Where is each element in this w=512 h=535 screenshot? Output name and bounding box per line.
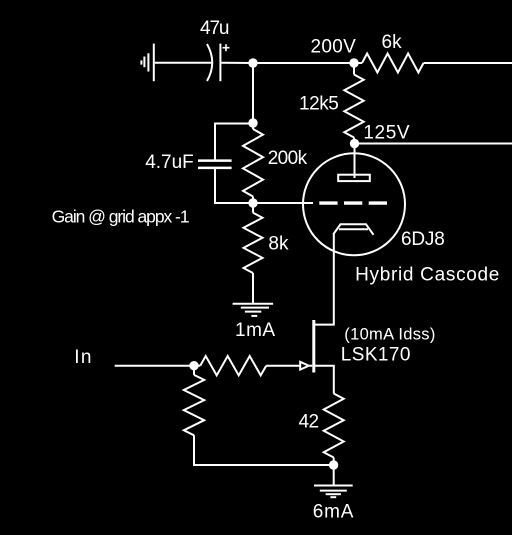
tube U1 envelope (303, 153, 405, 255)
wire node G to ground G3 (333, 465, 335, 485)
transistor Q1 LSK170 channel bar (312, 320, 315, 373)
wire R6 to bottom rail (194, 435, 334, 465)
svg-text:6mA: 6mA (313, 501, 354, 522)
wire gate arrow to bar (309, 365, 313, 367)
transistor Q1 gate arrow (300, 362, 309, 370)
svg-text:6DJ8: 6DJ8 (401, 229, 445, 250)
wire R2 to node C (353, 138, 356, 144)
resistor R3 200k (243, 129, 263, 197)
svg-text:12k5: 12k5 (299, 94, 338, 115)
svg-text:4.7uF: 4.7uF (145, 152, 194, 173)
wire R3 to node E (252, 197, 254, 204)
wire node B to R2 (353, 63, 355, 75)
wire R4 to ground G2 (252, 273, 254, 303)
wire cathode to Q1 drain (315, 233, 334, 325)
resistor R5 (gate stopper) (200, 356, 266, 375)
node G (329, 460, 338, 469)
ground G3 (6mA) (314, 486, 353, 498)
resistor R6 (gate return) (184, 375, 204, 435)
wire R7 to node G (333, 458, 335, 466)
resistor R1 6k (362, 54, 424, 73)
node E (248, 198, 257, 207)
svg-text:Gain @ grid appx -1: Gain @ grid appx -1 (52, 206, 189, 226)
svg-text:6k: 6k (382, 32, 403, 53)
wire 125V rail (355, 143, 512, 145)
svg-text:In: In (74, 347, 93, 368)
wire gate (266, 365, 300, 367)
tube U1 cathode (334, 224, 374, 235)
wire node F to R5 (194, 365, 200, 367)
wire node D to R3 (252, 123, 254, 129)
svg-text:8k: 8k (268, 233, 289, 254)
node F (189, 361, 198, 370)
wire cap branch top (215, 124, 253, 160)
resistor R7 42 (324, 394, 344, 458)
wire ground to C1 (155, 62, 212, 64)
svg-text:LSK170: LSK170 (341, 345, 411, 366)
tube U1 plate (338, 175, 370, 181)
wire node A to node B (200V rail) (253, 62, 354, 64)
svg-text:125V: 125V (363, 122, 410, 143)
transistor Q1 source lead (315, 366, 334, 394)
wire In to node F (115, 365, 194, 367)
svg-text:47u: 47u (200, 18, 229, 39)
wire C1 to node A (221, 62, 253, 64)
wire node A down to node D (252, 63, 254, 123)
capacitor C1 47u (207, 44, 230, 82)
node B (349, 58, 358, 67)
svg-text:1mA: 1mA (235, 320, 276, 341)
resistor R2 12k5 (344, 75, 363, 138)
capacitor C2 4.7uF (198, 161, 232, 168)
svg-text:42: 42 (299, 412, 319, 433)
node C (350, 139, 359, 148)
node A (248, 58, 257, 67)
tube U1 grid dashes (319, 201, 387, 204)
wire node E to grid (253, 202, 313, 204)
svg-text:200k: 200k (268, 148, 308, 169)
wire cap branch bottom (215, 169, 253, 203)
wire 6k to right edge (424, 62, 512, 64)
wire node C to plate (354, 144, 356, 179)
ground G1 (top-left, sideways) (141, 44, 153, 82)
svg-text:(10mA Idss): (10mA Idss) (344, 325, 435, 343)
node D (248, 118, 257, 127)
ground G2 (1mA) (233, 304, 274, 316)
wire R1 lead-in (354, 62, 362, 64)
svg-text:200V: 200V (311, 36, 357, 57)
wire node E to R4 (252, 203, 254, 213)
svg-text:Hybrid Cascode: Hybrid Cascode (355, 264, 500, 285)
resistor R4 8k (244, 213, 263, 273)
wire node F to R6 (193, 366, 195, 375)
